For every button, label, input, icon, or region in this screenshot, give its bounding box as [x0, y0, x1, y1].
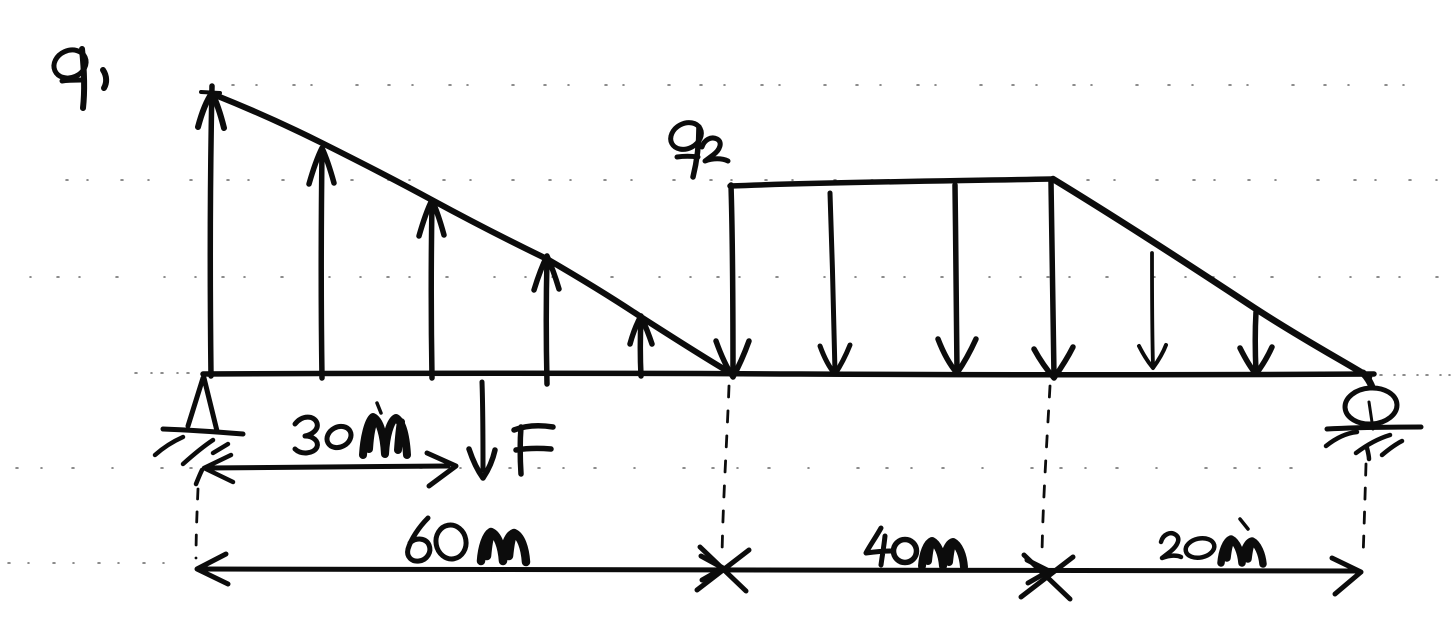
q2 load: end blob at beam junction — [1363, 373, 1372, 387]
dimension 30m: left arrowhead — [204, 455, 233, 482]
dimension 40m: scribbled m — [922, 541, 964, 567]
force F: arrowhead — [469, 449, 495, 478]
q1 load: arrow 4 head — [534, 256, 559, 290]
pinned support A: triangle — [188, 378, 217, 431]
dashed extension line at support A — [196, 489, 198, 558]
q2 load: arrow 1 shaft — [731, 185, 733, 375]
dimension 30m: right arrowhead — [427, 453, 456, 486]
dashed extension line at x=100m — [1042, 386, 1050, 553]
label q1 — [49, 45, 106, 108]
dimension 30m: scribbled m — [363, 417, 407, 455]
pinned support A: hatch strokes — [155, 437, 228, 484]
roller support B: contact tick — [1369, 402, 1373, 429]
label q2 — [666, 117, 728, 177]
dimension 20m: scribbled m — [1221, 539, 1263, 564]
dimension 30m: digit 0 — [323, 422, 354, 451]
q2 load: arrow 5 shaft — [1152, 253, 1153, 366]
dashed extension line at support B — [1363, 464, 1366, 558]
q1 load: apex tick — [201, 92, 220, 93]
q2 load: arrow 6 shaft — [1253, 312, 1259, 372]
dimension base: X tick at 40/20 — [1021, 555, 1073, 599]
roller support B: circle — [1344, 386, 1398, 426]
force F: arrow shaft — [482, 382, 483, 470]
dimension base: right arrowhead — [1332, 558, 1361, 594]
q2 load: arrow 4 head — [1034, 347, 1073, 378]
q2 load: sloped right line — [1053, 179, 1369, 377]
label F — [514, 426, 553, 474]
q1 load: arrow 5 head — [630, 316, 652, 344]
q2 load: arrow 4 shaft — [1051, 181, 1054, 376]
dimension base: left arrowhead — [197, 554, 228, 584]
ruled grid dotted line 4 left stub — [135, 372, 200, 374]
q1 load: sloped top line — [215, 95, 729, 372]
dimension base line 60-40-20 — [200, 569, 1358, 571]
q2 load: arrow 2 shaft — [830, 193, 835, 372]
dimension base: X tick at 60/40 — [697, 547, 749, 591]
q1 load: arrow 2 head — [309, 148, 334, 184]
q2 load: arrow 1 head — [716, 341, 749, 377]
q2 load: arrow 3 shaft — [955, 185, 957, 371]
dimension 60m: digit 0 — [433, 523, 468, 562]
ruled grid dotted line 3 — [30, 276, 1448, 278]
dimension 20m: digit 2 — [1161, 533, 1181, 558]
dimension 60m: digit 6 — [408, 518, 430, 561]
dimension 60m: scribbled m — [481, 532, 526, 562]
q1 load: tall left arrow shaft — [210, 86, 212, 376]
ruled grid dotted line 4 right stub — [1380, 374, 1450, 376]
q2 load: arrow 2 head — [820, 345, 850, 374]
ruled grid dotted line 2 — [66, 179, 1448, 181]
roller support B: hatch strokes — [1326, 432, 1402, 459]
dimension 30m: digit 3 — [295, 417, 317, 453]
dimension 30m: arrow line — [207, 466, 448, 468]
q1 load: tall left arrowhead — [198, 93, 224, 128]
q1 load: arrow 3 shaft — [429, 202, 435, 378]
dimension 30m: stray tick above m — [377, 403, 381, 413]
dimension base: arrowhead into X at 40/20 — [1027, 560, 1049, 583]
q2 load: arrow 3 head — [938, 339, 976, 373]
dimension 40m: digit 0 — [894, 540, 917, 563]
dimension 20m: digit 0 — [1184, 536, 1216, 561]
q2 load: top line — [730, 179, 1052, 186]
pinned support A: ground line — [163, 429, 243, 434]
q1 load: arrow 4 shaft — [544, 258, 550, 384]
q1 load: arrow 2 shaft — [319, 150, 325, 378]
ruled grid dotted line 6 left stub — [8, 562, 180, 564]
dimension 20m: stray tick above m — [1240, 519, 1248, 529]
beam — [203, 373, 1374, 375]
q2 load: arrow 6 head — [1240, 347, 1272, 374]
dimension 40m: digit 4 — [866, 528, 891, 565]
ruled grid dotted line 5 — [16, 467, 1295, 469]
q2 load: arrow 5 head — [1139, 345, 1166, 368]
dashed extension line at x=60m — [722, 386, 729, 556]
q1 load: arrow 5 shaft — [638, 318, 644, 376]
ruled grid dotted line 1 — [232, 84, 1445, 86]
dimension base: arrowhead into X at 60/40 — [701, 556, 723, 580]
roller support B: ground line — [1327, 427, 1421, 429]
q1 load: arrow 3 head — [419, 200, 444, 236]
